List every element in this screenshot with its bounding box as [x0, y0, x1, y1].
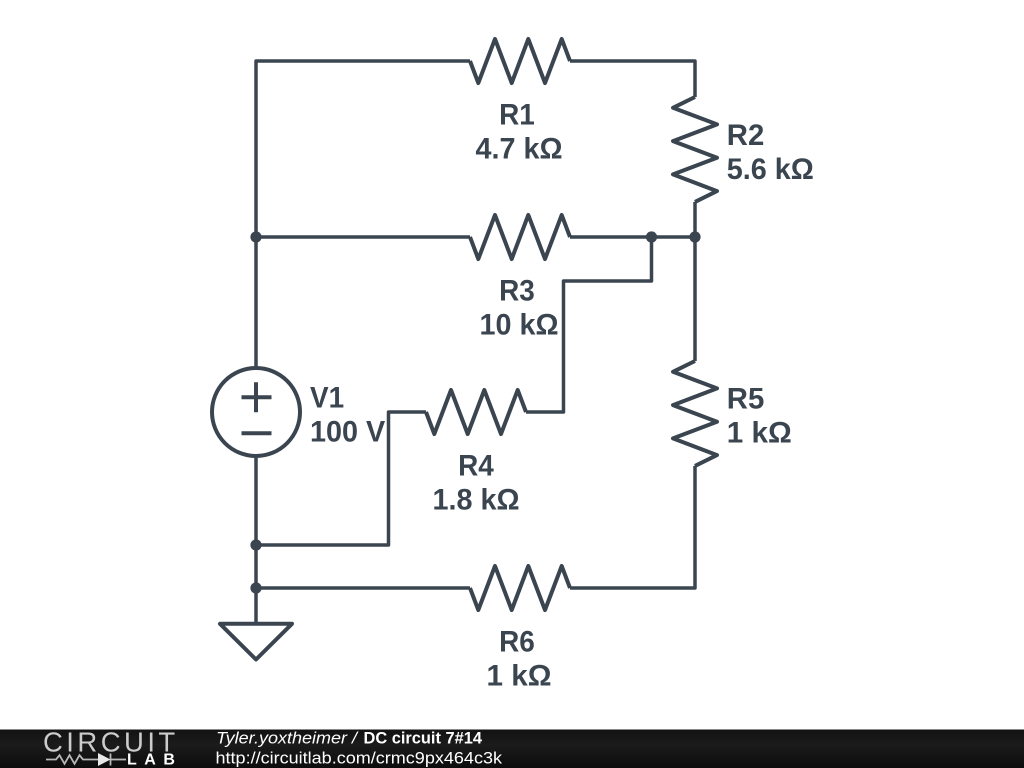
wire top right: [570, 61, 695, 97]
node dot right rail: [689, 231, 700, 242]
resistor R1: [470, 39, 570, 83]
svg-text:V1: V1: [310, 382, 344, 415]
V1 plus sign: [242, 382, 272, 412]
svg-text:DC circuit 7#14: DC circuit 7#14: [364, 730, 483, 748]
svg-text:100 V: 100 V: [310, 416, 385, 449]
svg-text:1.8 kΩ: 1.8 kΩ: [433, 484, 520, 517]
wire R5 top lead: [693, 237, 697, 361]
wire R4 left to V1 bottom junction: [256, 412, 426, 545]
wire left rail top: [256, 61, 470, 237]
svg-text:R3: R3: [499, 275, 535, 308]
svg-text:Tyler.yoxtheimer /: Tyler.yoxtheimer /: [216, 730, 359, 748]
svg-text:R1: R1: [499, 99, 535, 132]
wire bottom right / R5 bottom lead: [570, 466, 695, 588]
svg-text:R6: R6: [499, 626, 535, 659]
resistor R6: [470, 566, 570, 610]
node dot R3 right: [646, 231, 657, 242]
wire R3 to R4 jog: [526, 237, 652, 412]
resistor R4: [426, 390, 526, 434]
svg-text:R2: R2: [727, 119, 765, 152]
svg-text:http://circuitlab.com/crmc9px4: http://circuitlab.com/crmc9px464c3k: [216, 750, 503, 768]
svg-text:1 kΩ: 1 kΩ: [727, 417, 792, 450]
wire middle right: [570, 235, 695, 239]
ground symbol: [220, 624, 292, 660]
node dot V1 minus / R4: [250, 539, 261, 550]
wire bottom left: [256, 586, 470, 590]
svg-text:R4: R4: [458, 450, 494, 483]
svg-text:R5: R5: [727, 383, 765, 416]
logo symbol wire+resistor+diode: [46, 754, 126, 766]
svg-text:10 kΩ: 10 kΩ: [480, 309, 559, 342]
voltage source V1 circle: [212, 368, 300, 456]
svg-text:5.6 kΩ: 5.6 kΩ: [727, 153, 814, 186]
V1 minus sign: [242, 431, 272, 435]
svg-text:LAB: LAB: [127, 752, 182, 768]
wire R2 bottom lead: [693, 202, 697, 237]
wire V1 bottom to ground: [254, 456, 258, 623]
wire middle left: [256, 235, 470, 239]
svg-text:4.7 kΩ: 4.7 kΩ: [476, 133, 563, 166]
wire V1 top: [254, 237, 258, 368]
node dot ground / R6: [250, 582, 261, 593]
svg-text:1 kΩ: 1 kΩ: [487, 660, 552, 693]
resistor R3: [470, 215, 570, 259]
resistor R5: [673, 361, 717, 466]
resistor R2: [673, 97, 717, 202]
node dot middle-left: [250, 231, 261, 242]
